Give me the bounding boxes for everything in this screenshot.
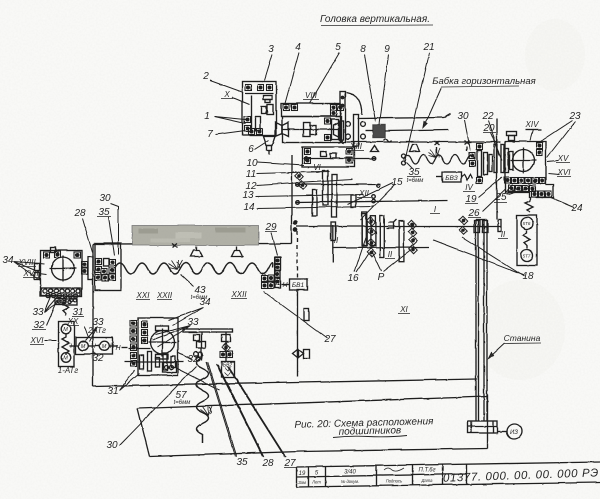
machine bed upper box outline [93,215,478,386]
leader 9 [379,54,388,124]
leader 35 left [108,217,114,255]
motor chain 1-ATg [58,297,74,366]
leader 14 [256,206,374,208]
components on stem A [193,334,205,361]
leader 32 mid [92,351,98,356]
vertical head bearings top [245,84,272,102]
node N and BV1 box [281,279,307,290]
leader 15 [347,182,395,220]
leader 13 [255,194,363,196]
leader P [372,249,411,271]
leader 35 wave [406,162,412,168]
chain below headstock: spring [525,197,533,212]
leader 28 left [82,218,92,252]
bottom gearbox housing [138,318,178,376]
lower spindle band [275,116,341,142]
gear mesh block [365,125,385,138]
leader 19 [478,177,502,197]
curved housing corner [346,92,362,115]
x mark on bed top [172,243,177,247]
column (stanina) vertical lines [474,219,488,421]
hanging flags under gray bar [190,246,242,256]
leader 10 [257,162,304,165]
vertical head lower bearings [248,128,262,134]
leader 2 [210,80,243,92]
left drive housing [34,250,82,296]
machine bed lower outline [137,394,487,456]
titleblock sig [384,468,404,471]
leader 26 [482,189,505,211]
headstock pulley top [506,131,516,140]
BV5 box at gearbox corner [162,362,176,372]
XIV label underline [525,129,541,131]
right end plate of band [340,91,345,142]
T-shaped feed assembly bar [183,329,233,362]
leader 16 [354,233,369,272]
headstock right bearings [536,142,542,155]
leader XVIII [34,263,44,264]
main shaft I [293,221,500,262]
burst arrow on wave 43 [168,260,182,269]
bevel pair on vertical link [292,349,309,358]
leader 22 [488,120,499,155]
leader X [232,97,249,104]
shaft VI y158 [303,156,375,160]
leader 30 right [464,120,470,150]
wave shaft 35 [401,154,475,165]
leader 20 [490,132,502,160]
right end plate of shaft I [498,220,501,232]
burst arrow on wave 35 [428,148,440,157]
leader 35 bottom [206,362,236,456]
leader 24 [548,196,574,207]
N node left of gearbox [121,346,127,348]
leader XVI [44,339,56,341]
gear cluster left of headstock [469,143,504,183]
spindle cone below head [263,136,275,154]
leader XV [547,160,558,161]
BV2 box [221,361,234,377]
upper spindle band housing [281,103,343,116]
leader XVI right [548,173,559,174]
leader 31 mid [172,366,219,390]
leader 30 bottom [119,366,196,445]
middle gearbox housing [292,142,355,216]
motor chain 2-ATg [69,337,117,354]
leader 18 [433,237,524,276]
leader 30 left [110,203,118,254]
vertical link from BV1 down [297,231,309,376]
headstock left gear bars [504,148,513,172]
wave shaft 57 vertical [196,357,208,443]
components on stem B [220,334,233,357]
leader 34 mid [168,307,203,325]
node I3 circle [497,424,522,439]
leader 29 [271,232,277,255]
leader 11 [256,171,329,173]
spindle shaft flange [333,115,365,147]
BV3 box [436,172,472,183]
leader XVII [38,273,46,274]
leader 33 left [44,293,64,312]
horizontal headstock housing [505,141,553,197]
leader XX [84,326,88,337]
leader 25 [504,184,528,194]
left drive motor circle [49,255,76,281]
leader XIV [530,129,533,140]
headstock spindle circle [510,147,536,173]
burst arrow on wave 57 [199,405,212,415]
title block table [296,462,600,487]
leader 32 gearbox [177,352,191,359]
bevel gear pairs on shaft I [367,216,467,256]
leader 33 gearbox [152,325,190,347]
leader 34 far left [13,261,40,280]
left drive bottom roller rows [41,288,80,305]
leader stanina arrow [490,343,504,356]
bottom gearbox lower shaft and gears [124,348,183,371]
gray shaded bar on bed [132,225,258,245]
flag symbols on band [370,144,419,151]
headstock bearing rows [504,177,551,197]
vertical head housing [242,81,276,135]
shaft y202 [295,194,447,204]
leader 1 [214,116,245,123]
leader 3 [264,54,272,80]
leader 31 left [119,370,139,390]
brake unit box with 5T circles [517,215,537,265]
leader 23 [537,120,575,157]
leader 28 bottom [216,364,263,457]
leader 8 [364,54,375,121]
leader 27 right [263,291,327,338]
gear bars middle gearbox [312,170,375,246]
vertical head gear block [244,104,273,131]
fork symbol on shaft I [386,219,396,228]
bottom gearbox spindle circle [148,326,176,359]
left drive output section [81,243,121,290]
bevel gears top-left of gearbox [295,172,306,189]
leader 12 [256,179,352,185]
horizontal headstock dashed outline [346,114,500,220]
leader 5 [309,52,339,103]
leader 21 [404,52,429,162]
leader 7 [215,130,245,134]
leader 4 [285,52,299,103]
leader 32 left [46,300,57,325]
leader 6 [254,140,268,149]
bottom gearbox left bearing column [130,320,147,366]
gear bars on shaft I [362,214,404,262]
left drive top bearings [43,247,80,258]
shaft y185 [295,182,380,187]
scan noise blobs [475,19,585,380]
leader babka arrow [424,87,441,125]
leader 33 mid [85,326,97,341]
leader 27 bottom [227,366,285,457]
wave shaft 43 [114,262,272,273]
leader 43 [180,274,193,286]
small mark x on band [338,139,469,153]
column foot [468,421,498,433]
right end plate of wave 43 [261,257,280,289]
shaft to headstock [385,130,448,131]
